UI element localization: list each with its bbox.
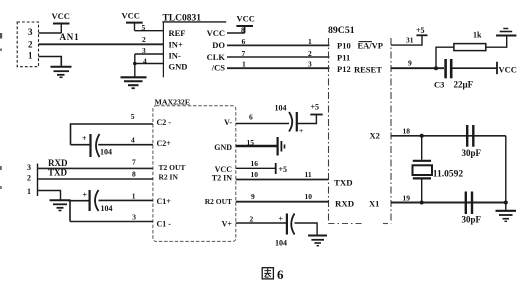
capacitor 104 at V+ [275, 214, 295, 248]
89C51 left border [328, 38, 330, 224]
wire V- cap to +5 [297, 115, 317, 124]
89C51 P11 label [337, 53, 350, 63]
svg-text:3: 3 [28, 27, 33, 37]
svg-text:9: 9 [408, 59, 412, 68]
wire TLC0831 VCC pin 8 [227, 32, 245, 34]
svg-text:IN-: IN- [169, 51, 181, 61]
chip U3 MAX232E label [155, 98, 191, 107]
svg-text:4: 4 [143, 57, 147, 66]
svg-text:10: 10 [305, 192, 313, 201]
svg-text:3: 3 [142, 46, 146, 55]
svg-text:3: 3 [27, 163, 31, 172]
capacitor C2 104 [82, 134, 112, 157]
svg-text:+5: +5 [416, 26, 425, 35]
svg-text:7: 7 [132, 158, 136, 167]
svg-text:8: 8 [132, 170, 136, 179]
svg-text:6: 6 [242, 37, 246, 46]
junction dot at RESET node [434, 66, 438, 70]
wire to crystal ground [505, 203, 507, 211]
TLC0831 right pin labels [207, 28, 226, 73]
svg-text:4: 4 [131, 136, 135, 145]
VCC symbol above REF pin [122, 11, 143, 31]
ground sideways at GND pin [278, 137, 285, 156]
wire right vertical crystal loop [505, 136, 507, 203]
svg-text:2: 2 [142, 35, 146, 44]
svg-text:104: 104 [101, 204, 113, 213]
MAX232E right pin labels [205, 118, 233, 229]
89C51 X2 label [370, 131, 380, 141]
pin number 7 CLK [242, 49, 246, 58]
svg-text:11: 11 [305, 170, 312, 179]
svg-text:MAX232E: MAX232E [155, 98, 191, 107]
left connector pin 1 number [27, 187, 31, 196]
svg-text:/CS: /CS [211, 63, 226, 73]
pin number 2 V+ [250, 215, 254, 224]
wire V- pin 6 to cap [236, 123, 289, 125]
svg-text:C1 -: C1 - [157, 220, 172, 229]
ground top-right (inverted) [496, 29, 516, 36]
op-amp/chip U1 TLC0831 box [162, 14, 226, 78]
wire C2+ pin 4 left segment [71, 144, 91, 146]
svg-text:C3: C3 [434, 80, 444, 90]
node label AN1 [60, 32, 80, 42]
svg-text:+: + [299, 126, 303, 135]
pin number 5 REF [142, 23, 146, 32]
wire C1- pin 3 [70, 221, 153, 223]
wire X1 pin 19 [391, 202, 506, 204]
pin number 9 R2OUT [251, 192, 255, 201]
89C51 bottom border [329, 223, 392, 225]
svg-text:C2+: C2+ [157, 139, 172, 148]
wire C1 cap right to C1+ pin 1 [99, 199, 153, 201]
89C51 P12 label [337, 64, 351, 74]
svg-text:+5: +5 [279, 165, 288, 174]
svg-text:C2 -: C2 - [157, 118, 172, 127]
capacitor 104 at V- [275, 104, 304, 136]
pin number 2 IN+ [142, 35, 146, 44]
svg-text:9: 9 [251, 192, 255, 201]
svg-text:6: 6 [249, 113, 253, 122]
node label TXD [48, 168, 68, 178]
svg-text:19: 19 [403, 194, 411, 203]
svg-text:C1+: C1+ [157, 197, 172, 206]
pin number 10 T2IN [251, 170, 259, 179]
svg-text:1: 1 [308, 37, 312, 46]
+5 terminal at VCC pin [276, 163, 287, 174]
pin number 1 at P10 [308, 37, 312, 46]
wire T2IN pin 10 to TXD pin 11 [236, 179, 329, 181]
ground below V+ cap [308, 236, 327, 246]
capacitor C1 104 [83, 190, 113, 213]
wire EA/VP pin 31 to +5 [391, 35, 422, 45]
svg-text:+: + [82, 134, 87, 143]
svg-text:X2: X2 [370, 131, 380, 141]
ground bottom right [496, 211, 517, 222]
svg-text:104: 104 [275, 239, 287, 248]
svg-text:VCC: VCC [499, 65, 517, 75]
pin number 3 C1- [132, 213, 136, 222]
pin number 19 [403, 194, 411, 203]
pin number 6 DO [242, 37, 246, 46]
svg-text:1k: 1k [473, 31, 482, 40]
ground below AN1 [51, 67, 72, 78]
wire TXD to R2IN pin 8 [38, 178, 153, 180]
pin number 6 V- [249, 113, 253, 122]
+5 supply at pin 31 [416, 26, 428, 35]
svg-text:11.0592: 11.0592 [433, 170, 464, 180]
+5 supply above V- cap [310, 103, 322, 115]
capacitor 30pF top [462, 125, 482, 158]
wire /CS to P12 [227, 67, 330, 69]
svg-text:5: 5 [142, 23, 146, 32]
svg-text:P12: P12 [337, 64, 351, 74]
svg-text:RESET: RESET [354, 65, 382, 75]
svg-text:R2 OUT: R2 OUT [205, 197, 232, 206]
svg-text:5: 5 [131, 112, 135, 121]
capacitor 30pF bottom [462, 192, 482, 225]
svg-text:P10: P10 [337, 41, 351, 51]
svg-text:1: 1 [28, 51, 33, 61]
VCC symbol above AN1 [52, 11, 70, 33]
svg-text:T2 OUT: T2 OUT [159, 163, 186, 172]
connector AN1 pin 3 number [28, 27, 33, 37]
pin number 8 R2IN [132, 170, 136, 179]
svg-text:3: 3 [308, 60, 312, 69]
pin number 15 [247, 138, 255, 147]
pin number 10 RXD [305, 192, 313, 201]
svg-text:8: 8 [241, 26, 245, 35]
svg-text:104: 104 [275, 104, 287, 113]
svg-text:DO: DO [212, 40, 225, 50]
svg-text:RXD: RXD [335, 199, 354, 209]
crystal Y1 [413, 136, 464, 203]
svg-text:2: 2 [308, 49, 312, 58]
svg-text:1: 1 [242, 60, 246, 69]
wire V+ pin 2 to cap [236, 222, 287, 224]
wire AN1 pin2 to TLC0831 IN+ [39, 43, 164, 45]
wire CLK to P11 [227, 56, 330, 58]
89C51 RXD label [335, 199, 354, 209]
svg-text:V-: V- [224, 118, 232, 127]
svg-text:GND: GND [214, 143, 232, 152]
svg-text:VCC: VCC [207, 28, 225, 38]
svg-text:89C51: 89C51 [328, 25, 355, 36]
svg-text:REF: REF [169, 28, 186, 38]
left connector pin 3 number [27, 163, 31, 172]
pin number 11 TXD [305, 170, 312, 179]
svg-text:VCC: VCC [237, 14, 255, 24]
VCC symbol above TLC0831 VCC pin [236, 14, 255, 34]
svg-text:10: 10 [251, 170, 259, 179]
svg-text:16: 16 [251, 159, 259, 168]
svg-text:R2 IN: R2 IN [159, 173, 179, 182]
capacitor C3 22uF [434, 59, 474, 90]
wire AN1 pin3 to VCC [39, 32, 62, 34]
wire connector pin1 to ground [38, 191, 61, 201]
svg-text:31: 31 [406, 36, 414, 45]
pin number 1 C1+ [132, 192, 136, 201]
left margin scan artifacts [0, 33, 2, 189]
svg-text:VCC: VCC [52, 11, 70, 21]
pin number 3 at P12 [308, 60, 312, 69]
svg-text:30pF: 30pF [462, 215, 482, 225]
wire RXD to T2OUT pin 7 [38, 167, 153, 169]
wire GND pin 4 [134, 63, 164, 65]
wire V+ cap to ground [295, 223, 318, 235]
wire VCC pin 16 to +5 [236, 167, 276, 169]
89C51 right border [390, 38, 392, 224]
pin number 5 C2- [131, 112, 135, 121]
pin number 18 [403, 127, 411, 136]
connector AN1 box [17, 22, 38, 67]
wire C3 to VCC terminal [453, 67, 498, 69]
svg-text:6: 6 [277, 267, 284, 282]
ground below left connector [50, 200, 71, 210]
svg-text:P11: P11 [337, 53, 350, 63]
pin number 4 GND [143, 57, 147, 66]
pin number 4 C2+ [131, 136, 135, 145]
pin number 31 [406, 36, 414, 45]
svg-text:18: 18 [403, 127, 411, 136]
VCC terminal right of C3 [497, 62, 517, 75]
resistor R1 1k [454, 31, 486, 51]
caption figure 6 [262, 267, 284, 282]
89C51 X1 label [369, 199, 379, 209]
89C51 TXD label [334, 178, 353, 188]
svg-text:2: 2 [27, 174, 31, 183]
svg-text:GND: GND [169, 62, 188, 72]
pin number 9 [408, 59, 412, 68]
pin number 3 IN- [142, 46, 146, 55]
wire C2 cap to C2+ pin [98, 144, 153, 146]
svg-text:2: 2 [28, 40, 33, 50]
svg-text:1: 1 [27, 187, 31, 196]
ground below TLC0831 [121, 77, 147, 88]
MAX232E left pin labels [157, 118, 186, 229]
MAX232E box [153, 106, 236, 242]
89C51 P10 label [337, 41, 351, 51]
svg-text:VCC: VCC [122, 11, 140, 21]
svg-text:AN1: AN1 [60, 32, 80, 42]
wire C2- pin 5 loop [71, 124, 153, 145]
svg-text:IN+: IN+ [169, 40, 183, 50]
svg-text:X1: X1 [369, 199, 379, 209]
chip U2 89C51 label [328, 25, 355, 36]
svg-text:+: + [279, 215, 284, 224]
svg-text:7: 7 [242, 49, 246, 58]
svg-text:TXD: TXD [334, 178, 353, 188]
pin number 8 [241, 26, 245, 35]
89C51 RESET label [354, 65, 382, 75]
wire REF pin 5 [135, 30, 164, 32]
svg-text:V+: V+ [222, 220, 233, 229]
pin number 7 T2OUT [132, 158, 136, 167]
wire AN1 pin1 to ground [39, 57, 62, 67]
svg-text:+5: +5 [311, 103, 320, 112]
svg-text:30pF: 30pF [462, 148, 482, 158]
pin number 1 /CS [242, 60, 246, 69]
junction dot bottom right [504, 201, 508, 205]
svg-text:104: 104 [100, 148, 112, 157]
svg-text:TXD: TXD [48, 168, 68, 178]
left connector pin 2 number [27, 174, 31, 183]
svg-text:RXD: RXD [48, 158, 68, 168]
connector AN1 pin 1 number [28, 51, 33, 61]
left connector edge [37, 164, 39, 197]
wire resistor to top-right ground [486, 36, 507, 48]
wire GND pin 15 [236, 145, 277, 148]
wire RESET pin 9 [391, 67, 444, 69]
svg-text:CLK: CLK [207, 52, 226, 62]
svg-text:1: 1 [132, 192, 136, 201]
wire DO to P10 [227, 44, 330, 46]
wire IN- pin 3 [135, 53, 164, 55]
TLC0831 left pin labels [169, 28, 188, 72]
junction dot X1 node [420, 201, 424, 205]
svg-text:+: + [83, 191, 88, 200]
89C51 EA/VP label with overline [358, 41, 384, 51]
junction dot IN-/GND [133, 62, 137, 66]
wire C1 cap left down to C1- [69, 201, 71, 222]
svg-text:2: 2 [250, 215, 254, 224]
svg-text:T2 IN: T2 IN [212, 174, 232, 183]
svg-text:15: 15 [247, 138, 255, 147]
pin number 2 at P11 [308, 49, 312, 58]
pin number 16 [251, 159, 259, 168]
connector AN1 pin 2 number [28, 40, 33, 50]
wire X2 pin 18 [391, 135, 506, 137]
svg-text:3: 3 [132, 213, 136, 222]
wire ground to C1 cap left [68, 200, 90, 202]
junction dot X2 node [420, 134, 424, 138]
wire RESET node up to resistor [436, 47, 454, 68]
svg-text:22μF: 22μF [454, 80, 474, 90]
wire R2OUT pin 9 to RXD pin 10 [236, 201, 329, 203]
node label RXD [48, 158, 68, 168]
wire IN- down to GND junction [134, 54, 136, 77]
